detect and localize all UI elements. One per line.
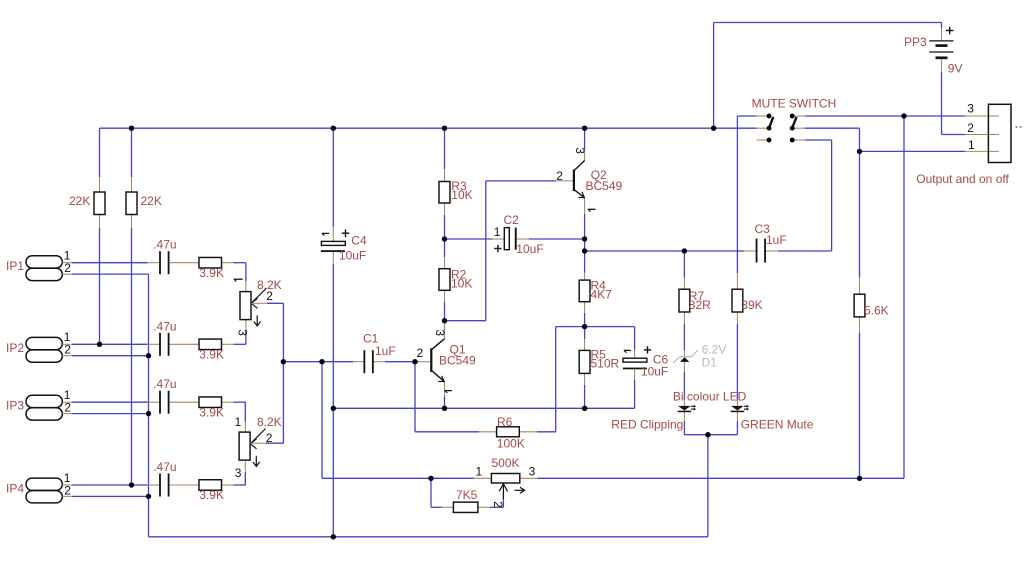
svg-text:2: 2 [417, 346, 424, 360]
svg-text:1: 1 [235, 415, 242, 429]
svg-text:510R: 510R [591, 357, 620, 371]
svg-text:6.2V: 6.2V [702, 342, 727, 356]
svg-text:10K: 10K [451, 277, 472, 291]
svg-text:3: 3 [529, 465, 536, 479]
svg-text:.47u: .47u [153, 319, 176, 333]
svg-text:3.9K: 3.9K [199, 488, 224, 502]
svg-text:1: 1 [968, 138, 975, 152]
svg-text:1uF: 1uF [375, 344, 396, 358]
svg-text:.47u: .47u [153, 377, 176, 391]
svg-text:D1: D1 [702, 355, 718, 369]
svg-text:3: 3 [967, 102, 974, 116]
svg-text:3: 3 [235, 329, 249, 336]
svg-text:.47u: .47u [153, 238, 176, 252]
svg-text:BC549: BC549 [586, 179, 623, 193]
svg-text:IP3: IP3 [6, 399, 24, 413]
svg-text:2: 2 [266, 431, 273, 445]
svg-text:9V: 9V [948, 61, 963, 75]
svg-text:2: 2 [967, 121, 974, 135]
svg-text:2: 2 [556, 169, 563, 183]
svg-text:3: 3 [433, 329, 447, 336]
svg-text:MUTE SWITCH: MUTE SWITCH [752, 97, 837, 111]
svg-text:Output and on off: Output and on off [916, 172, 1009, 186]
svg-text:10K: 10K [451, 188, 472, 202]
svg-text:2: 2 [491, 501, 505, 508]
svg-text:2: 2 [64, 343, 71, 357]
svg-text:82R: 82R [689, 298, 711, 312]
svg-text:1: 1 [476, 465, 483, 479]
svg-text:Bi colour LED: Bi colour LED [673, 389, 747, 403]
svg-text:R6: R6 [497, 415, 513, 429]
svg-text:100K: 100K [497, 437, 525, 451]
svg-text:3.9K: 3.9K [199, 405, 224, 419]
svg-text:5.6K: 5.6K [864, 304, 889, 318]
svg-text:2: 2 [266, 289, 273, 303]
svg-text:2: 2 [64, 483, 71, 497]
svg-text:10uF: 10uF [641, 365, 668, 379]
svg-text:C2: C2 [504, 213, 520, 227]
svg-text:3.9K: 3.9K [199, 266, 224, 280]
svg-text:1: 1 [494, 225, 501, 239]
svg-text:1uF: 1uF [766, 233, 787, 247]
svg-text:10uF: 10uF [339, 248, 366, 262]
svg-text:39K: 39K [741, 298, 762, 312]
svg-text:IP1: IP1 [6, 259, 24, 273]
svg-text:22K: 22K [141, 194, 162, 208]
svg-text:500K: 500K [492, 456, 520, 470]
svg-text:2: 2 [64, 401, 71, 415]
svg-text:GREEN Mute: GREEN Mute [741, 418, 814, 432]
svg-text:IP4: IP4 [6, 482, 24, 496]
svg-text:RED Clipping: RED Clipping [611, 418, 683, 432]
svg-text:C4: C4 [351, 234, 367, 248]
svg-text:3.9K: 3.9K [199, 348, 224, 362]
svg-text:3: 3 [235, 466, 242, 480]
svg-text:10uF: 10uF [516, 242, 543, 256]
svg-text:7K5: 7K5 [456, 488, 478, 502]
svg-text:2: 2 [64, 261, 71, 275]
svg-text:3: 3 [573, 147, 587, 154]
svg-text:.47u: .47u [153, 460, 176, 474]
svg-text:22K: 22K [69, 194, 90, 208]
svg-text:BC549: BC549 [439, 354, 476, 368]
svg-text:IP2: IP2 [6, 341, 24, 355]
svg-text:PP3: PP3 [904, 35, 927, 49]
svg-text:4K7: 4K7 [591, 288, 613, 302]
svg-text:8.2K: 8.2K [257, 415, 282, 429]
